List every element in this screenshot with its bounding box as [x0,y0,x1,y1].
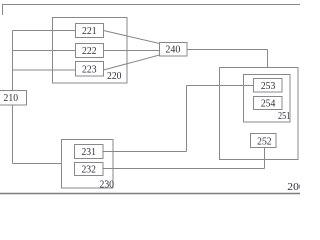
box 221 [76,24,104,38]
left border stub [2,5,4,16]
svg-text:200: 200 [287,181,300,193]
box 240 [160,43,188,57]
svg-text:240: 240 [165,44,180,56]
box 223 [76,62,104,77]
wire: 223 to 240 (slanted) [104,55,160,70]
svg-text:223: 223 [82,64,97,76]
group box 230 [62,140,114,189]
svg-text:230: 230 [100,178,115,190]
wire: 222 to 240 (horizontal) [104,50,160,52]
wire: horizontal into 231 right edge [103,151,187,153]
box 231 [75,145,104,159]
bottom border line of figure [0,193,300,195]
wire: 232 right edge horizontal toward 252 [103,168,265,170]
group box 251 [244,75,291,123]
wire: 253 to corner horizontal [187,85,254,87]
wire: 240 output drop to block 250 top [267,50,269,68]
wire: feed to 222 [13,50,76,52]
svg-text:210: 210 [4,92,19,104]
svg-text:231: 231 [81,146,96,158]
wire: 210 bus to 230 left edge [13,163,62,165]
wire: 221 to 240 (slanted) [104,31,160,44]
group box 220 [53,18,128,84]
wire: 240 output horizontal [187,49,268,51]
wire: feed to 223 [13,69,76,71]
wire: left bus vertical lower (box 210 bottom down to 230 connector) [12,105,14,164]
group box 250 (outer right) [220,68,299,160]
box 210 [0,91,27,106]
svg-text:251: 251 [278,110,290,122]
svg-text:232: 232 [81,163,96,175]
svg-text:252: 252 [257,135,272,147]
svg-text:253: 253 [261,80,276,92]
wire: corner vertical down to 231 level [186,86,188,152]
svg-text:221: 221 [82,25,97,37]
box 253 [254,79,283,93]
box 254 [254,97,283,110]
wire: left bus vertical upper (feeds to 221/222/223, down to box 210 top) [12,31,14,91]
svg-text:222: 222 [82,45,97,57]
box 222 [76,44,104,58]
top border line of figure [2,4,300,6]
box 252 [251,134,277,148]
wire: riser up into 252 bottom [264,148,266,169]
box 232 [75,163,104,176]
wire: feed to 221 [13,30,76,32]
svg-text:254: 254 [261,97,276,109]
svg-text:220: 220 [107,70,122,82]
